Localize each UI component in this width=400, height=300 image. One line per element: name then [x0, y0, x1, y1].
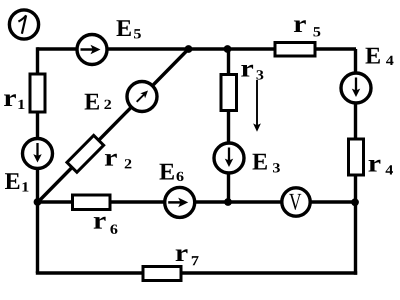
label E6: [159, 164, 183, 181]
label E1: [5, 173, 28, 191]
resistor r5: [275, 43, 315, 57]
junction node left at E1: [34, 198, 42, 206]
wire diagonal: [38, 49, 190, 203]
junction node on top wire at diagonal: [185, 45, 193, 53]
label r7: [176, 249, 199, 265]
label E5: [116, 20, 140, 38]
node marker circled 1: [9, 10, 38, 39]
source E2: [127, 82, 157, 112]
current arrow for r3: [253, 80, 261, 132]
resistor r7: [143, 267, 181, 281]
voltmeter V: [282, 188, 310, 216]
label r4: [369, 160, 393, 175]
wire bottom horizontal: [36, 271, 357, 274]
resistor r4: [349, 139, 364, 175]
source E6: [165, 187, 195, 217]
resistor r1: [30, 74, 45, 112]
label E2: [85, 94, 111, 110]
junction node middle at E3: [224, 198, 232, 206]
junction node right: [351, 198, 359, 206]
resistor r2: [67, 135, 104, 172]
junction node on top wire at r3 branch: [224, 45, 232, 53]
label E3: [252, 154, 279, 173]
label E4: [365, 48, 393, 65]
label r3: [241, 65, 263, 80]
source E1: [23, 139, 53, 169]
wire top horizontal: [37, 47, 356, 50]
source E5: [77, 35, 107, 65]
resistor r3: [221, 75, 237, 111]
source E4: [341, 73, 371, 103]
label r2: [105, 154, 131, 169]
resistor r6: [73, 195, 111, 210]
wire left vertical: [36, 47, 39, 273]
label r5: [294, 20, 320, 36]
source E3: [214, 143, 244, 173]
wire r3 branch vertical: [227, 49, 230, 202]
label r1: [4, 94, 24, 109]
wire right vertical: [354, 49, 357, 275]
wire middle horizontal: [38, 200, 356, 203]
label r6: [94, 217, 118, 234]
